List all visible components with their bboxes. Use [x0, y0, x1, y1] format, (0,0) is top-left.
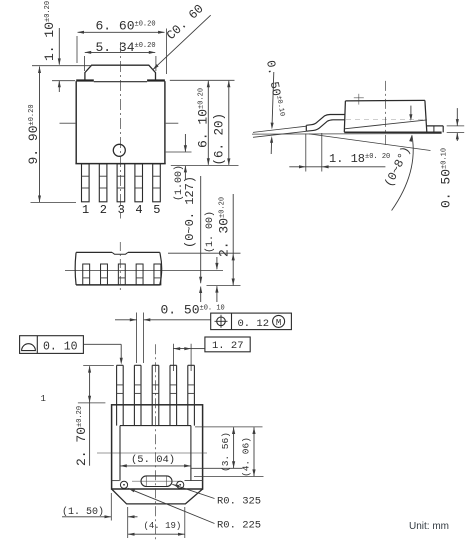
- svg-text:(6. 20): (6. 20): [213, 113, 227, 166]
- svg-text:3: 3: [118, 203, 125, 217]
- svg-text:2: 2: [100, 203, 107, 217]
- svg-text:1. 27: 1. 27: [212, 340, 244, 352]
- svg-text:R0. 325: R0. 325: [217, 496, 261, 508]
- svg-text:(1. 00): (1. 00): [204, 211, 216, 253]
- svg-text:(5. 04): (5. 04): [131, 454, 175, 466]
- svg-text:(4. 06): (4. 06): [241, 437, 252, 477]
- svg-text:1: 1: [41, 394, 46, 404]
- svg-text:R0. 225: R0. 225: [217, 520, 261, 532]
- svg-text:0. 10: 0. 10: [43, 341, 78, 354]
- svg-text:(4. 19): (4. 19): [144, 521, 182, 531]
- svg-text:0. 12: 0. 12: [238, 318, 270, 330]
- svg-text:(1. 50): (1. 50): [62, 506, 104, 518]
- svg-text:M: M: [276, 318, 281, 328]
- svg-text:5: 5: [153, 203, 160, 217]
- svg-text:(0~0. 127): (0~0. 127): [183, 176, 197, 248]
- svg-text:1: 1: [82, 203, 89, 217]
- svg-text:Unit: mm: Unit: mm: [409, 521, 449, 532]
- svg-text:(3. 56): (3. 56): [220, 432, 231, 472]
- svg-text:4: 4: [135, 203, 142, 217]
